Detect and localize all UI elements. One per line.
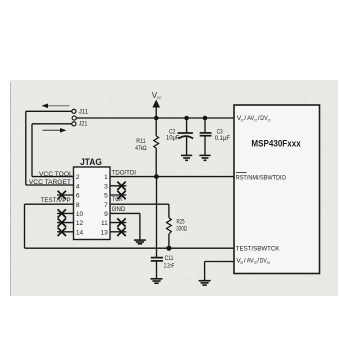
svg-text:RST/NMI/SBWTDIO: RST/NMI/SBWTDIO [236, 175, 286, 182]
svg-text:TCK: TCK [112, 196, 123, 203]
svg-text:CC: CC [241, 117, 244, 122]
svg-text:2.2nF: 2.2nF [164, 262, 174, 269]
svg-text:8: 8 [76, 202, 80, 209]
svg-text:10μF: 10μF [166, 135, 180, 142]
svg-text:14: 14 [76, 229, 84, 236]
svg-text:6: 6 [76, 193, 80, 200]
svg-text:J21: J21 [79, 120, 88, 127]
svg-text:13: 13 [100, 229, 108, 236]
svg-text:10: 10 [76, 211, 84, 218]
svg-text:3: 3 [104, 183, 108, 190]
svg-text:SS: SS [267, 260, 270, 265]
svg-text:/: / [244, 115, 246, 122]
svg-text:4: 4 [76, 183, 80, 190]
svg-text:12: 12 [76, 220, 84, 227]
svg-text:JTAG: JTAG [80, 157, 102, 167]
svg-text:0.1μF: 0.1μF [215, 135, 231, 142]
svg-text:CC: CC [268, 117, 271, 122]
svg-text:J11: J11 [79, 108, 89, 115]
svg-text:TEST/SBWTCK: TEST/SBWTCK [236, 245, 280, 252]
svg-text:7: 7 [104, 202, 108, 209]
svg-text:VCC TOOL: VCC TOOL [39, 171, 73, 178]
svg-text:11: 11 [101, 220, 108, 227]
svg-text:TDO/TDI: TDO/TDI [112, 169, 137, 176]
svg-text:GND: GND [112, 206, 126, 213]
svg-text:2: 2 [76, 174, 80, 181]
svg-text:47kΩ: 47kΩ [135, 145, 147, 152]
svg-text:CC: CC [157, 95, 162, 100]
svg-text:5: 5 [104, 193, 108, 200]
svg-text:1: 1 [104, 174, 108, 181]
svg-text:TEST/VPP: TEST/VPP [41, 197, 71, 204]
svg-text:C11: C11 [165, 255, 174, 262]
svg-text:/: / [244, 258, 246, 265]
svg-text:MSP430Fxxx: MSP430Fxxx [251, 139, 301, 149]
svg-text:VCC TARGET: VCC TARGET [29, 179, 71, 186]
svg-text:SS: SS [240, 260, 243, 265]
svg-text:9: 9 [104, 211, 108, 218]
svg-text:330Ω: 330Ω [176, 225, 187, 232]
